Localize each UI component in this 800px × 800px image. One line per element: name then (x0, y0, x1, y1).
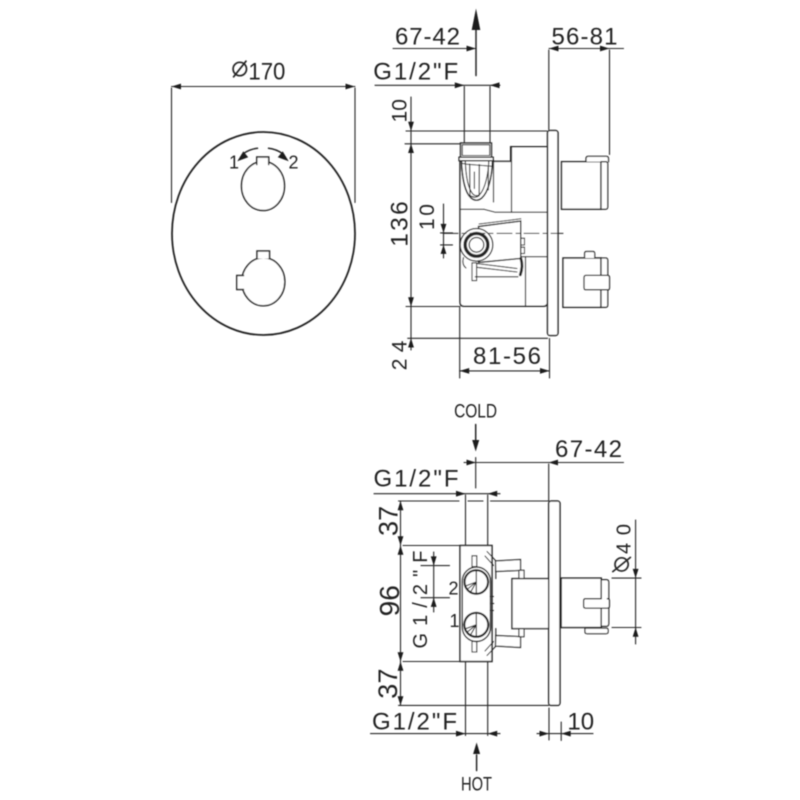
extension line right (354, 88, 356, 203)
svg-text:COLD: COLD (454, 401, 497, 422)
hub foot (585, 628, 608, 634)
hot arrow (476, 755, 478, 771)
top inlet cap (461, 143, 492, 157)
lower wing (485, 642, 497, 656)
svg-text:37: 37 (373, 506, 403, 536)
plane y=338.3 extension (408, 337, 548, 339)
volume valve block (479, 221, 521, 263)
spout cap (601, 258, 608, 307)
svg-text:10: 10 (416, 204, 439, 230)
svg-text:2: 2 (448, 578, 458, 598)
skirt leg (472, 263, 477, 281)
dimension 81-56 line (460, 370, 550, 372)
port extension lines top (465, 495, 467, 546)
up flow arrow (475, 30, 477, 76)
cap lip (459, 157, 493, 161)
svg-text:G1/2"F: G1/2"F (374, 465, 459, 492)
dimension Φ170 line (172, 86, 356, 88)
cover plate ellipse (172, 132, 355, 335)
81-56 extension lines (459, 308, 461, 379)
port circle 2 (465, 570, 489, 594)
upper wing (485, 552, 497, 566)
plane y=131 extension (406, 130, 547, 132)
svg-text:40: 40 (613, 524, 635, 554)
svg-text:24: 24 (388, 340, 411, 370)
wall plate (side view) (548, 131, 559, 336)
volume knob (bottom) (242, 258, 285, 306)
extension to wall plane (548, 50, 550, 130)
svg-text:56-81: 56-81 (552, 24, 618, 51)
svg-text:HOT: HOT (461, 774, 492, 795)
port circle 1 (464, 613, 488, 637)
rough-in body (top view) (460, 546, 492, 662)
thermostat knob (top) (242, 162, 285, 211)
svg-text:136: 136 (386, 201, 413, 247)
svg-text:37: 37 (373, 669, 403, 699)
spout outlet block (bottom right) (563, 258, 601, 307)
plane y=143.8 extension (405, 143, 460, 145)
outlet cap (601, 162, 608, 210)
thermostat cartridge dome (462, 161, 493, 200)
chain arrows (408, 122, 414, 131)
port slot top (472, 556, 477, 567)
dimension 67-42 line (393, 48, 476, 50)
thermostat knob tab (257, 157, 269, 165)
svg-text:2: 2 (288, 153, 298, 173)
arc arrow right (278, 151, 289, 161)
svg-text:170: 170 (248, 59, 285, 86)
port extension lines (463, 87, 465, 143)
bottom dim line (371, 733, 501, 735)
left chain line (400, 501, 402, 705)
body top extension (403, 545, 460, 547)
svg-text:G1/2"F: G1/2"F (372, 709, 457, 736)
pipe plane bottom (399, 704, 549, 706)
left dimension chain line (410, 97, 412, 350)
G1/2 port dimension line (375, 84, 500, 86)
body bottom extension (403, 661, 460, 663)
svg-text:67-42: 67-42 (395, 24, 460, 51)
spout nipple (584, 275, 610, 289)
svg-text:67-42: 67-42 (555, 436, 622, 463)
volume cartridge circles (460, 229, 493, 262)
svg-text:G1/2"F: G1/2"F (373, 58, 458, 85)
arc arrow left (237, 151, 248, 161)
rotation arc right segment (269, 148, 283, 153)
knob hub Φ40 (561, 578, 601, 627)
port slot bottom (472, 641, 477, 652)
extension right (609, 50, 611, 155)
shower outlet block (top right) (562, 162, 602, 210)
inner dim 10 line (443, 204, 445, 258)
valve chamber (512, 579, 549, 629)
dimension Φ170 text (233, 62, 246, 75)
extension to wall plane (548, 464, 550, 501)
svg-text:81-56: 81-56 (473, 343, 541, 370)
Φ40 dimension (615, 558, 628, 571)
dimension 67-42 line (464, 462, 624, 464)
outlet lip (586, 156, 609, 161)
rotation arc left segment (244, 148, 258, 153)
dimension 56-81 line (549, 48, 624, 50)
dimension Φ170 right arrow (346, 84, 356, 90)
valve body envelope (460, 147, 548, 307)
port boss stadium (462, 567, 490, 642)
cartridge slot (470, 164, 480, 197)
port extension lines bottom (465, 662, 467, 736)
svg-text:10: 10 (567, 709, 594, 736)
svg-text:96: 96 (374, 585, 405, 616)
G1/2 dim line (374, 493, 500, 495)
hub notch (584, 599, 610, 608)
extension line left (171, 88, 173, 203)
pipe plane top (399, 500, 549, 502)
hub cap (601, 578, 609, 627)
lower wedge (475, 264, 518, 277)
centerline (443, 232, 563, 234)
svg-text:1: 1 (449, 611, 459, 631)
centerline tick (475, 458, 477, 489)
plane y=306.5 extension (406, 306, 460, 308)
volume knob top tab (257, 251, 270, 259)
svg-text:1: 1 (229, 153, 239, 173)
wall plate (bottom view) (549, 501, 560, 705)
spout top bump (585, 252, 595, 259)
block right tabs (521, 238, 525, 245)
interior divider lines (493, 161, 495, 202)
cold arrow (475, 425, 477, 442)
dimension Φ170 left arrow (172, 84, 182, 90)
volume knob side tab (237, 276, 244, 290)
svg-text:10: 10 (389, 99, 412, 122)
hub-plate junction marks (560, 579, 562, 627)
